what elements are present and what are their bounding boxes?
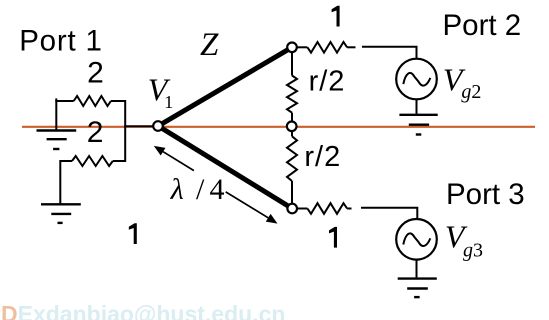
transmission line Z (upper thick) [159, 47, 292, 125]
r/2 bottom lead to bottom node [291, 181, 293, 206]
ground (top-left) [37, 131, 77, 150]
port3 resistor right lead [347, 208, 351, 210]
svg-text:r/2: r/2 [309, 66, 346, 98]
port2 wire to source [362, 47, 417, 59]
svg-text:λ: λ [170, 173, 184, 206]
node V1 [153, 121, 163, 131]
svg-text:Port 2: Port 2 [443, 9, 522, 42]
r/2 top zigzag [287, 76, 297, 113]
port3 resistor 1 zigzag [307, 203, 347, 214]
resistor 2 (bottom-left) zigzag [72, 156, 113, 166]
port3 resistor 1: lead from bottom node [297, 208, 308, 210]
r/2 top lead to middle node [291, 113, 293, 124]
svg-text:r/2: r/2 [304, 141, 341, 173]
value 1 (bottom-left) [129, 223, 137, 244]
svg-text:Port 1: Port 1 [19, 24, 103, 57]
resistor 2 (bottom-left), lead right [113, 160, 126, 162]
svg-text:2: 2 [87, 57, 104, 90]
wire to ground (top-left) [55, 98, 57, 129]
svg-text:2: 2 [471, 81, 481, 103]
r/2 resistor bottom: lead from middle node [291, 129, 293, 137]
svg-text:4: 4 [210, 173, 225, 206]
ground (bottom-left) [41, 204, 81, 223]
value 1 (port2 resistor) [332, 6, 340, 27]
svg-text:g: g [461, 81, 471, 103]
resistor 2 (bottom-left), lead left + corner [60, 161, 72, 204]
value 1 (port3 resistor) [329, 227, 337, 248]
watermark [1, 301, 285, 320]
transmission line lower thick [159, 127, 292, 209]
sine wave inside Vg2 [403, 73, 430, 86]
node bottom (port3 junction) [287, 204, 297, 214]
svg-text:1: 1 [164, 92, 173, 112]
r/2 bottom zigzag [287, 136, 297, 181]
svg-text:2: 2 [87, 116, 104, 149]
port2 resistor 1: lead from top node [297, 46, 308, 48]
sine wave inside Vg3 [403, 233, 430, 246]
lambda/4 dimension arrow upper segment [163, 152, 194, 171]
wire below Vg3 [416, 260, 418, 278]
port2 resistor 1 zigzag [307, 42, 347, 53]
ground below Vg2 [399, 115, 437, 135]
r/2 resistor top: lead from top node [291, 50, 293, 76]
port3 wire to source [361, 208, 417, 219]
svg-text:Z: Z [200, 27, 219, 63]
AC source Vg3 circle [396, 219, 437, 260]
lambda/4 dimension arrow lower segment [226, 192, 269, 218]
resistor 2 (top-left), lead right [111, 100, 126, 102]
AC source Vg2 circle [396, 59, 437, 100]
svg-text:Port 3: Port 3 [446, 178, 525, 211]
port2 resistor right lead [347, 46, 355, 48]
arrowhead down-right [266, 214, 278, 224]
resistor 2 (top-left), lead left [55, 100, 73, 102]
wire from bracket to node V1 [124, 125, 154, 127]
resistor 2 (top-left) zigzag [74, 96, 111, 106]
node middle (between r/2) [287, 122, 297, 132]
wire below Vg2 [416, 99, 418, 114]
svg-text:/: / [196, 173, 205, 206]
orange axis line [22, 126, 535, 128]
ground below Vg3 [398, 279, 437, 298]
svg-text:g: g [463, 240, 473, 262]
arrowhead up-left [154, 146, 166, 156]
svg-text:3: 3 [473, 240, 483, 262]
node top (port2 junction) [287, 43, 297, 53]
wire bracket vertical (right side of left resistors) [124, 100, 126, 162]
